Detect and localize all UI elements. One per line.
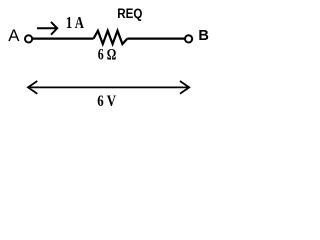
svg-text:1 A: 1 A bbox=[66, 13, 84, 32]
resistor REQ bbox=[94, 31, 128, 44]
wire left bbox=[32, 37, 93, 39]
terminal B bbox=[185, 35, 192, 42]
svg-text:REQ: REQ bbox=[117, 6, 142, 21]
svg-text:A: A bbox=[8, 26, 20, 45]
svg-text:6 V: 6 V bbox=[97, 93, 116, 110]
voltage arrow 6V bbox=[28, 81, 189, 94]
svg-text:6 Ω: 6 Ω bbox=[98, 47, 117, 64]
terminal A bbox=[25, 35, 32, 42]
current arrow 1A bbox=[37, 22, 57, 35]
svg-text:B: B bbox=[198, 28, 209, 44]
wire right bbox=[127, 37, 185, 39]
